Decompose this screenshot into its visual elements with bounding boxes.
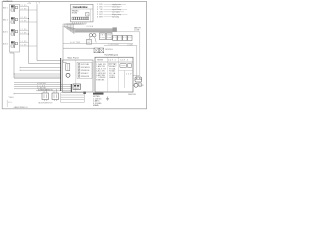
label panel layout title [105, 54, 119, 57]
svg-text:AUX 2: AUX 2 [3, 43, 8, 46]
breaker CB3 [11, 29, 18, 36]
distribution box outline [10, 4, 20, 52]
relay K1 in connection box [86, 12, 89, 16]
wire box drop [10, 53, 61, 78]
svg-text:CCT 2: CCT 2 [120, 60, 128, 62]
wire pump stubs [45, 100, 57, 102]
svg-text:SW4 ACC: SW4 ACC [81, 72, 89, 75]
wire legend list [97, 4, 128, 19]
rocker R2 [127, 64, 131, 68]
wire pump feed [14, 93, 42, 94]
inline connector P2 [93, 34, 96, 37]
wire drop x137 [126, 46, 137, 77]
sheet border frame [2, 2, 146, 109]
negative bus lines [14, 83, 71, 91]
table header labels [97, 60, 128, 62]
svg-text:SW3 BILGE: SW3 BILGE [81, 70, 90, 72]
wire CB1 out [20, 5, 38, 11]
sheet header label [3, 0, 13, 3]
wire PM1 [44, 89, 46, 93]
horn H1 [133, 83, 144, 87]
svg-text:SW5 HORN: SW5 HORN [81, 76, 90, 78]
label CB3 [3, 31, 8, 34]
wire TB1 drops [73, 22, 86, 24]
svg-text:SHUNT: SHUNT [74, 88, 80, 90]
svg-text:SW1 NAV: SW1 NAV [81, 63, 90, 66]
svg-text:2.5 RD: 2.5 RD [21, 5, 28, 7]
connector row X1..X4 [113, 35, 132, 40]
svg-text:Main Panel: Main Panel [68, 58, 80, 60]
bulkhead connector BX2 [99, 48, 104, 53]
svg-text:4. REV A: 4. REV A [93, 104, 99, 107]
table rows column 1 [96, 63, 106, 81]
wire drop left harness [63, 26, 94, 63]
wire vertical bus V1 [29, 7, 62, 64]
svg-text:1.5 BN FEED: 1.5 BN FEED [108, 44, 120, 46]
shunt block [73, 84, 81, 90]
svg-text:horn relay: horn relay [112, 17, 119, 19]
panel wiring table U1 [95, 57, 133, 92]
relay outline in table [109, 63, 116, 66]
svg-text:CABLES TINNED CU: CABLES TINNED CU [14, 106, 29, 109]
svg-text:HORN: HORN [139, 85, 144, 87]
bus feeder ticks [14, 67, 20, 75]
label CB1 [3, 7, 8, 10]
terminal strip TB1 [72, 17, 89, 20]
connection box J1 [71, 4, 93, 22]
svg-text:2.5 BK: 2.5 BK [21, 9, 28, 11]
svg-text:BAT 2: BAT 2 [3, 19, 8, 22]
label CB4 [3, 43, 8, 46]
junction square [83, 92, 85, 94]
junction box JB2 [106, 33, 112, 40]
wire to right edge [113, 31, 140, 33]
svg-text:Connection Box: Connection Box [73, 5, 89, 9]
svg-text:SW PANEL FD: SW PANEL FD [3, 0, 13, 3]
svg-text:ALL: ALL [8, 101, 12, 104]
switch list inner box [77, 62, 92, 78]
wire P2 drop [95, 37, 97, 43]
wire labels mid [70, 42, 134, 46]
svg-text:4 way: 4 way [107, 37, 111, 39]
svg-text:1.5 BK: 1.5 BK [21, 45, 28, 47]
label bulkhead [105, 49, 114, 51]
breaker CB1 [11, 5, 18, 12]
svg-text:8 NEG BK: 8 NEG BK [96, 79, 105, 81]
svg-text:2 CORE: 2 CORE [134, 30, 140, 32]
svg-text:* NEG: * NEG [8, 97, 14, 99]
svg-text:1.5 RD: 1.5 RD [21, 29, 28, 31]
svg-text:JB1: JB1 [100, 35, 104, 37]
caption under table [128, 94, 136, 96]
bus collector bar [60, 58, 62, 91]
svg-text:2 CORE: 2 CORE [127, 44, 133, 46]
svg-text:2.5 BK: 2.5 BK [21, 21, 28, 23]
connection box note rows [72, 10, 80, 14]
svg-text:4.0 GY TWIN: 4.0 GY TWIN [70, 42, 81, 44]
label mast feed [134, 26, 142, 31]
svg-text:RETURN: RETURN [72, 13, 78, 15]
meter M1 in panel [66, 73, 70, 77]
svg-text:BILGE PUMPS P1 P2: BILGE PUMPS P1 P2 [39, 103, 53, 105]
wire vertical bus V2 [37, 4, 61, 60]
svg-text:2.5 RD: 2.5 RD [21, 17, 28, 19]
ground symbol [106, 97, 109, 101]
switch list SW1..SW5 [78, 63, 90, 78]
terminal block table bottom [61, 93, 84, 103]
indicator box [139, 83, 142, 86]
bus feeder lines left [14, 68, 61, 79]
svg-text:X3: X3 [123, 37, 126, 39]
breaker CB2 [11, 17, 18, 24]
svg-text:SW2 ANCH: SW2 ANCH [81, 66, 90, 69]
svg-text:BUS BAR 8 WAY SEE NOTE 1: BUS BAR 8 WAY SEE NOTE 1 [38, 88, 53, 91]
wire bus lower mid [63, 44, 133, 46]
svg-text:LOOM A: LOOM A [86, 25, 94, 28]
pump motor PM2 [52, 93, 59, 100]
junction box JB1 [100, 33, 106, 40]
svg-text:6 way: 6 way [100, 37, 105, 39]
harness end ferrule [113, 27, 117, 31]
svg-text:Panel Wiring List: Panel Wiring List [105, 54, 119, 57]
negative bus labels [37, 83, 53, 91]
wire PM2 [54, 89, 56, 93]
connection box title [73, 5, 89, 9]
table rows column 2 [109, 63, 116, 79]
rocker R1 [120, 64, 127, 68]
fuse F1 in panel [66, 64, 70, 71]
wire CB3 out [20, 29, 29, 35]
inline connector P1 [89, 34, 92, 37]
svg-text:1.5 BK: 1.5 BK [21, 33, 28, 35]
svg-text:JB2: JB2 [107, 35, 111, 37]
harness label [86, 25, 94, 28]
wire CB2 out [20, 17, 38, 23]
svg-text:CCT 1: CCT 1 [108, 60, 116, 62]
label pumps [39, 103, 53, 105]
note line bottom [7, 100, 28, 109]
breaker CB4 [11, 41, 18, 48]
splice box S1 [86, 40, 91, 45]
svg-text:SEE NOTE 3: SEE NOTE 3 [128, 94, 136, 96]
svg-text:1.5 RD: 1.5 RD [21, 41, 28, 43]
wire harness W1 fan-out [63, 24, 113, 34]
svg-text:DECK PLUG: DECK PLUG [105, 49, 114, 51]
table rows column 3 [126, 74, 132, 76]
svg-text:X2: X2 [118, 37, 121, 39]
svg-text:X1: X1 [113, 37, 116, 39]
svg-text:X4: X4 [128, 37, 131, 39]
svg-text:BAT 1: BAT 1 [3, 7, 8, 10]
label main panel [68, 58, 80, 60]
label CB2 [3, 19, 8, 22]
shunt bar [70, 84, 72, 92]
note asterisk [8, 97, 14, 99]
wire P1 drop [89, 37, 91, 40]
svg-text:TERM: TERM [97, 60, 103, 62]
connector row labels [113, 37, 131, 39]
svg-text:6 WH: 6 WH [97, 17, 103, 19]
svg-text:12V: 12V [126, 74, 132, 76]
net label +V bus [27, 3, 41, 5]
notes block [93, 93, 104, 107]
junction bus V1 [28, 18, 29, 35]
wire CB4 out [20, 41, 38, 47]
switch panel box [63, 60, 94, 92]
svg-text:SPARE: SPARE [109, 76, 116, 79]
svg-text:AUX 1: AUX 1 [3, 31, 8, 34]
pump motor PM1 [42, 93, 49, 100]
bulkhead connector BX1 [94, 48, 99, 53]
lamp LP1 [135, 77, 142, 82]
wire loop right side [133, 32, 140, 76]
